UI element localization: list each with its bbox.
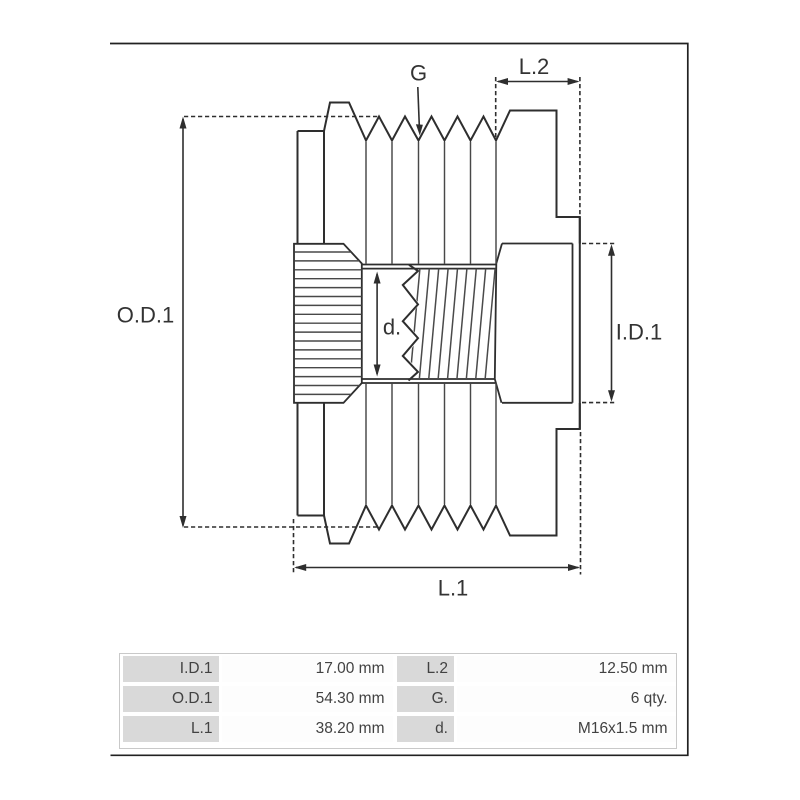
- svg-text:O.D.1: O.D.1: [117, 303, 174, 328]
- svg-text:d.: d.: [383, 315, 401, 340]
- svg-text:G: G: [410, 61, 427, 86]
- svg-text:I.D.1: I.D.1: [616, 320, 662, 345]
- svg-text:L.1: L.1: [438, 576, 469, 601]
- svg-text:L.2: L.2: [519, 54, 550, 79]
